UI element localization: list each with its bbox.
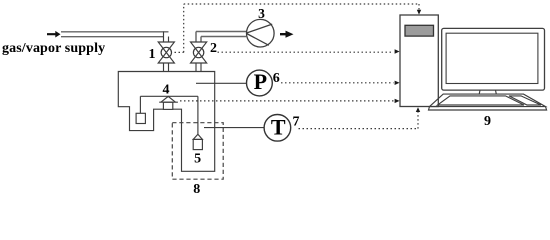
label 2 bbox=[210, 41, 217, 56]
label 6 bbox=[273, 71, 280, 86]
signal dotted: top run to computer bbox=[184, 3, 419, 5]
label 1 bbox=[149, 47, 156, 62]
vessel chamber outline bbox=[118, 72, 214, 172]
keyboard front strip bbox=[429, 107, 547, 110]
valve V2 bbox=[191, 32, 207, 72]
signal dotted: riser x183.7 bbox=[183, 4, 185, 52]
arrow into tower bottom (T) bbox=[416, 107, 420, 112]
wire: supply pipe upper line bbox=[61, 31, 169, 33]
label 9 bbox=[484, 114, 491, 129]
signal dotted: balance to computer bbox=[180, 100, 394, 102]
svg-text:P: P bbox=[254, 69, 267, 94]
svg-text:5: 5 bbox=[194, 151, 201, 166]
signal dotted: T gauge run bbox=[299, 128, 419, 130]
svg-text:3: 3 bbox=[258, 6, 265, 21]
wire: thermocouple line bbox=[204, 127, 264, 129]
sample hang wire bbox=[197, 96, 199, 134]
gas/vapor supply label bbox=[2, 41, 105, 56]
svg-text:gas/vapor supply: gas/vapor supply bbox=[2, 41, 105, 56]
label 7 bbox=[293, 115, 300, 130]
fulcrum 4 eave line bbox=[159, 101, 178, 103]
pressure gauge P bbox=[247, 70, 273, 96]
svg-text:7: 7 bbox=[293, 115, 300, 130]
keyboard main keys quad bbox=[438, 96, 525, 105]
temperature gauge T bbox=[264, 115, 291, 142]
svg-text:4: 4 bbox=[163, 82, 170, 97]
wire: pipe valve2 to pump upper bbox=[196, 31, 246, 33]
svg-text:2: 2 bbox=[210, 41, 217, 56]
arrow into tower top bbox=[417, 10, 421, 15]
keyboard numpad quad bbox=[509, 96, 541, 105]
arrow into tower left (valve2) bbox=[395, 49, 400, 53]
label 8 bbox=[193, 182, 200, 197]
supply inlet arrow bbox=[47, 31, 61, 38]
valve V1 bbox=[158, 32, 174, 72]
signal dotted: valve1 stub bbox=[175, 51, 184, 53]
counterweight box bbox=[136, 113, 145, 123]
svg-text:9: 9 bbox=[484, 114, 491, 129]
signal dotted: drop into tower top bbox=[418, 4, 420, 10]
label 3 bbox=[258, 6, 265, 21]
svg-text:6: 6 bbox=[273, 71, 280, 86]
wire: pressure tap line bbox=[196, 82, 246, 84]
arrow into tower left (P) bbox=[395, 81, 400, 85]
thermostat dashed box 8 bbox=[172, 123, 223, 180]
signal dotted: T riser to tower bottom bbox=[417, 112, 419, 129]
computer tower bbox=[400, 15, 438, 107]
sample bucket 5 bbox=[193, 134, 202, 139]
label 5 bbox=[194, 151, 201, 166]
counterweight hang wire bbox=[139, 96, 141, 113]
tower drive bay bbox=[405, 25, 434, 36]
wire: pipe valve2 to pump lower bbox=[201, 36, 246, 38]
fulcrum 4 roof triangle bbox=[161, 96, 176, 102]
balance beam (item 4 support) bbox=[140, 95, 198, 97]
monitor screen bbox=[446, 33, 538, 83]
pump U3 bbox=[246, 19, 274, 47]
signal dotted: P gauge to computer bbox=[281, 82, 394, 84]
pump outlet arrow bbox=[280, 31, 294, 38]
monitor neck bbox=[479, 90, 496, 94]
monitor outer case bbox=[442, 28, 545, 90]
label 4 bbox=[163, 82, 170, 97]
signal dotted: valve2 to computer bbox=[218, 51, 394, 53]
keyboard outer bbox=[430, 94, 546, 107]
fulcrum 4 post box bbox=[163, 102, 172, 109]
svg-text:T: T bbox=[271, 115, 286, 140]
svg-text:1: 1 bbox=[149, 47, 156, 62]
arrow into tower left (balance) bbox=[395, 99, 400, 103]
wire: supply pipe lower line bbox=[61, 36, 164, 38]
svg-text:8: 8 bbox=[193, 182, 200, 196]
